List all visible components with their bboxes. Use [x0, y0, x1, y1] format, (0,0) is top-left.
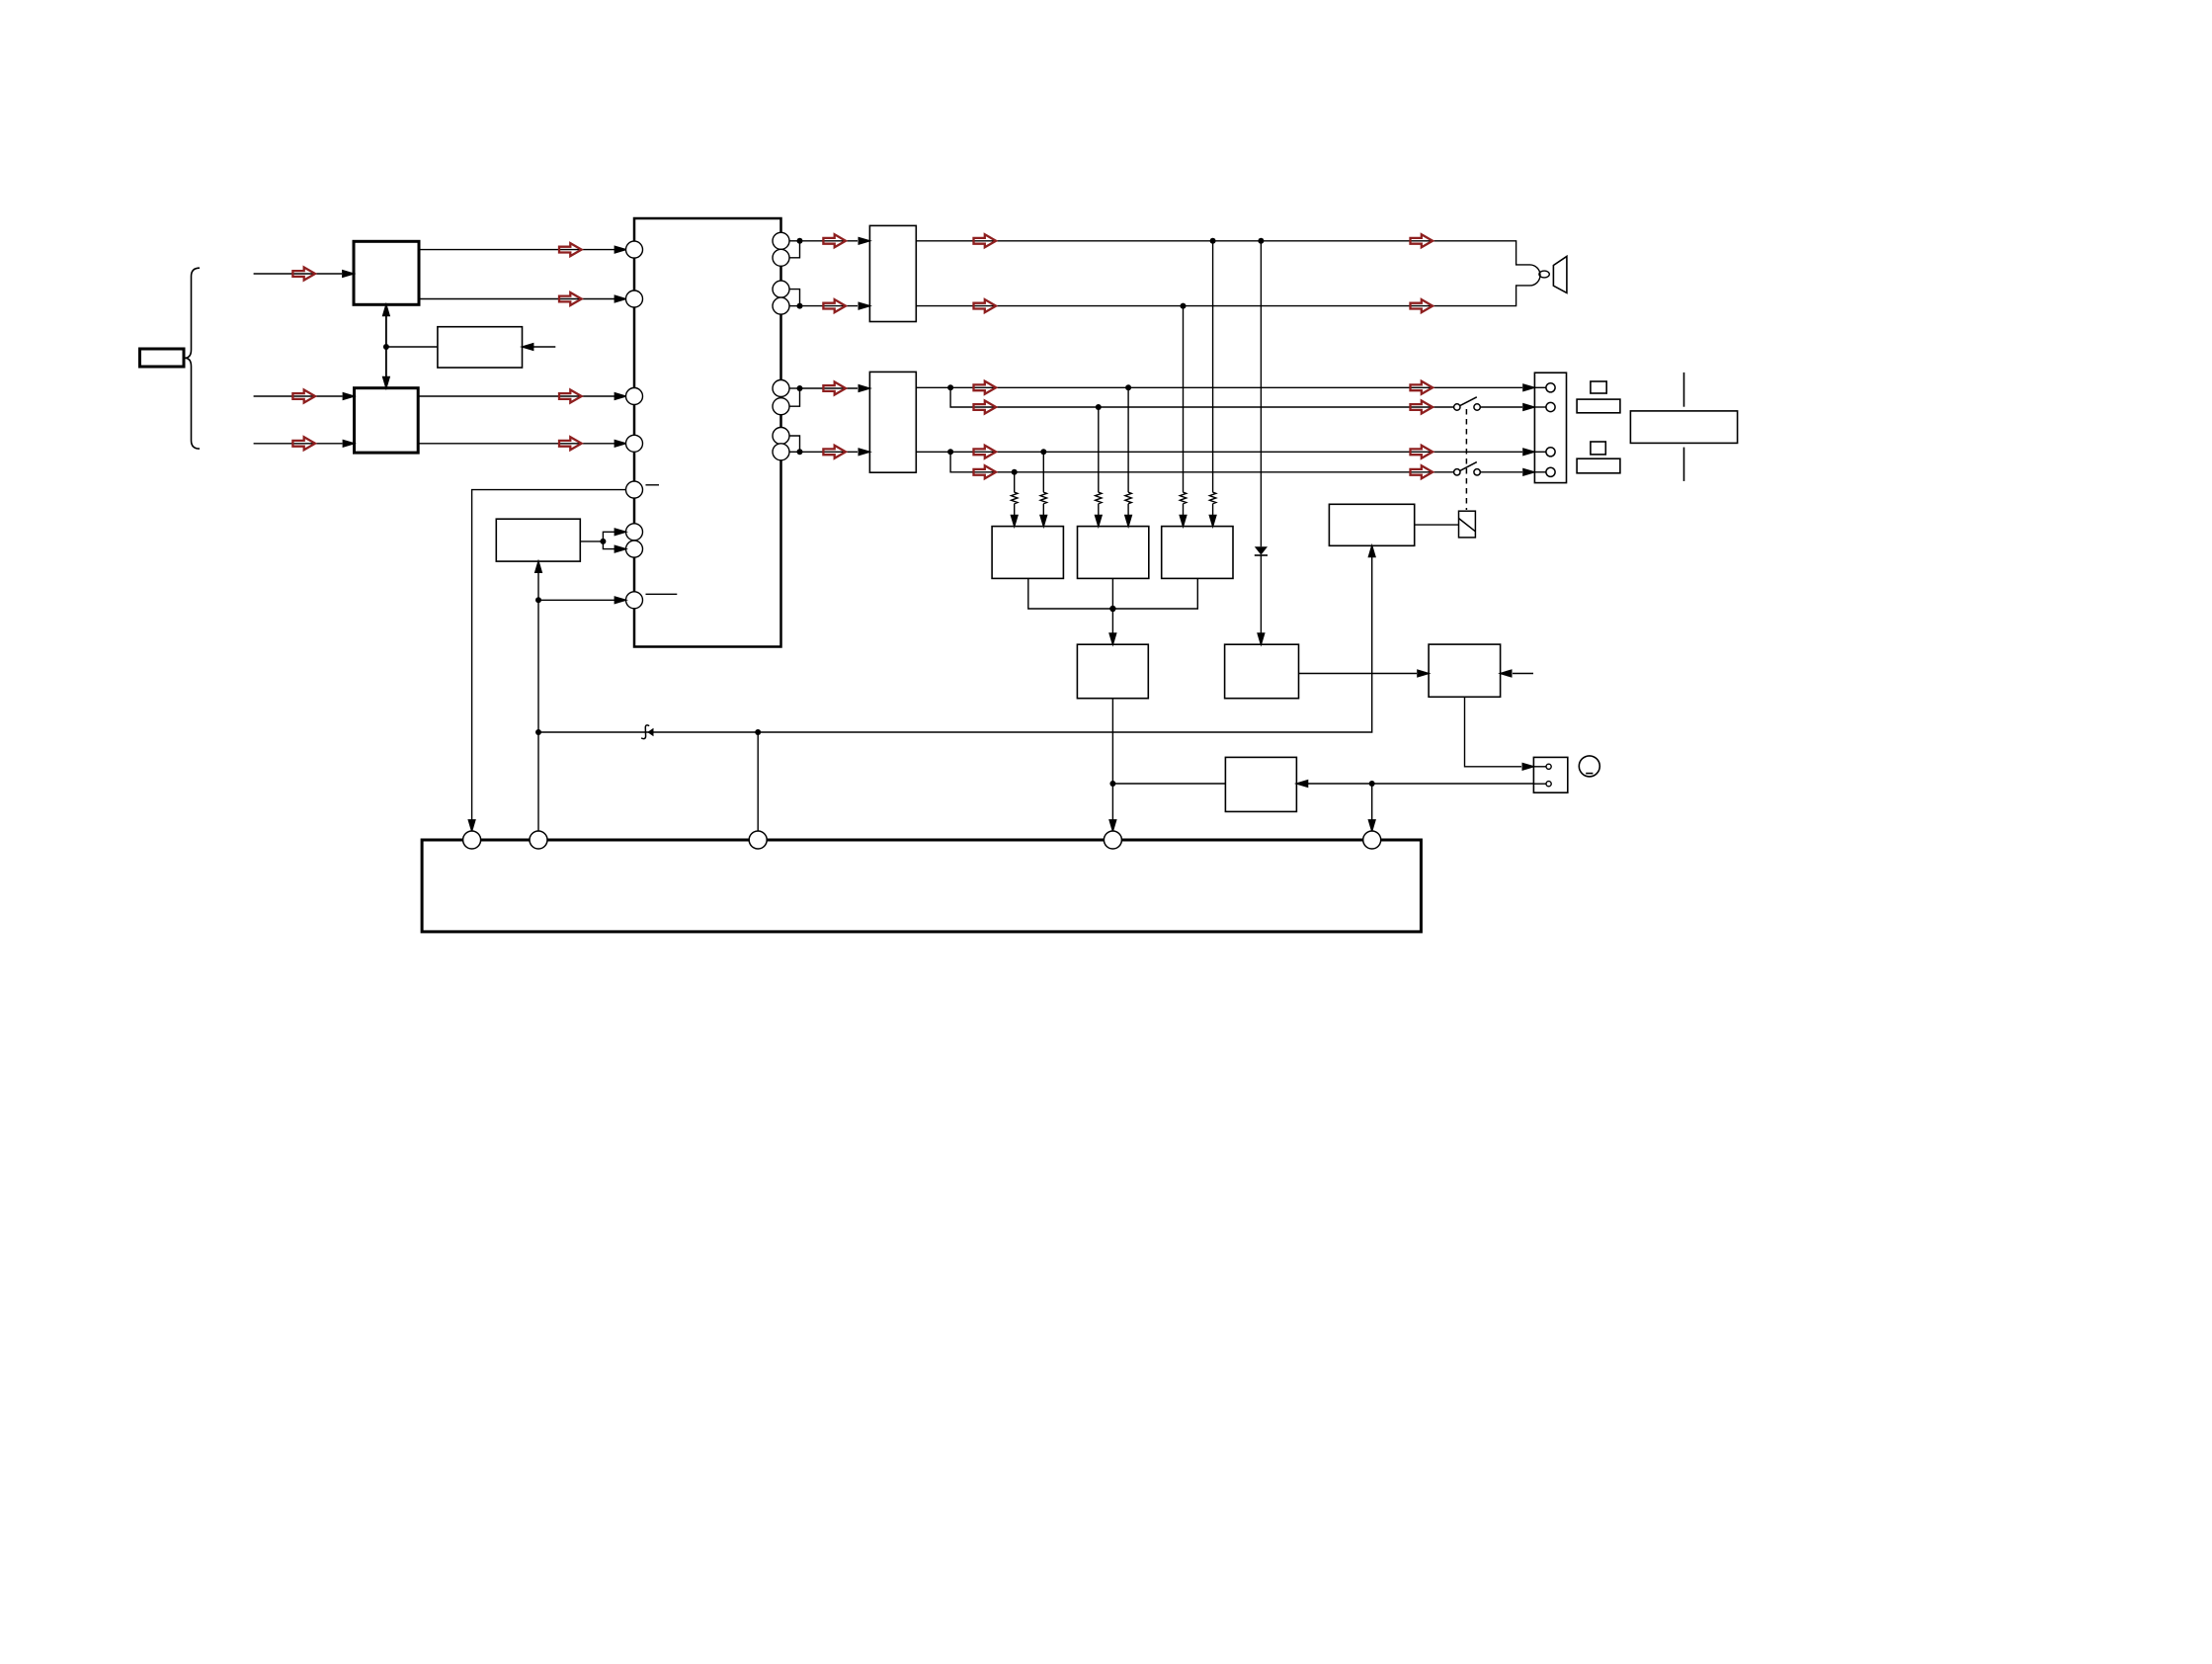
- red arrow S1 top: [559, 243, 582, 256]
- red arrow R1 a: [974, 381, 997, 394]
- switch SW1 right contact: [1474, 404, 1480, 410]
- flow arrow left on vcc run: [647, 728, 653, 737]
- CN2 pin1 lead: [1533, 766, 1546, 768]
- node mic row drop: [1369, 781, 1375, 787]
- diode D1: [1255, 546, 1268, 554]
- wire split to pin6: [603, 532, 614, 541]
- IC left pin7: [626, 541, 643, 557]
- arrowhead into box2 bottom: [859, 449, 869, 456]
- wire to box1 bottom input: [800, 305, 859, 307]
- amp block box1: [869, 225, 916, 321]
- switch SW2 right contact: [1474, 469, 1480, 475]
- wire to box1 top input: [800, 240, 859, 242]
- node R1 resistor drop: [1125, 384, 1131, 390]
- IC left pin2: [626, 291, 643, 307]
- wire S1-S2 vertical link: [385, 316, 387, 376]
- CN1 pin2 lead: [1534, 406, 1546, 408]
- wire S1 out bottom to IC pin2: [419, 298, 614, 300]
- red arrow row 309.6: [823, 299, 846, 312]
- switch SW1 lever: [1460, 397, 1477, 406]
- node diode drop: [1258, 238, 1264, 244]
- arrowhead left into M1: [523, 344, 533, 351]
- resistor col4: [1125, 492, 1131, 504]
- block boxE: [1225, 644, 1299, 699]
- connector CN1 body: [1534, 373, 1566, 482]
- arrowhead into pin6: [614, 529, 625, 536]
- wire main vcc riser: [537, 600, 539, 840]
- switch link dashed: [1465, 409, 1467, 510]
- red arrow S2 bottom: [559, 437, 582, 450]
- block boxW: [496, 519, 580, 561]
- wire box2 out row R3 to connector: [916, 451, 1522, 453]
- IC left pin3: [626, 388, 643, 405]
- red arrow S2 top: [559, 390, 582, 403]
- red arrow row 393: [823, 382, 846, 395]
- red arrow far right top: [1411, 234, 1434, 247]
- resistor col2 wire: [1042, 452, 1044, 516]
- node R3 resistor drop: [1040, 449, 1046, 455]
- wire split to pin7: [603, 541, 614, 549]
- wire branch R4: [950, 452, 1453, 472]
- arrowhead down to PSU c4: [1109, 820, 1116, 831]
- block S2: [355, 388, 419, 453]
- terminal square T1: [1591, 381, 1606, 393]
- arrowhead down into S2 top: [383, 377, 390, 388]
- red arrow R3 a: [974, 446, 997, 458]
- arrowhead into box1 top: [859, 238, 869, 245]
- arrowhead into pin7: [614, 545, 625, 552]
- arrowhead up into boxW: [535, 561, 542, 572]
- arrowhead col6 into boxC: [1209, 515, 1216, 526]
- diode D1 bar: [1255, 554, 1268, 556]
- node R1 split: [947, 384, 953, 390]
- CN1 pin1: [1546, 383, 1555, 392]
- speaker coil ellipse: [1539, 271, 1549, 278]
- wire boxW right to split: [580, 541, 603, 542]
- arrowhead up into boxG: [1368, 545, 1375, 556]
- PSU terminal c3: [749, 831, 767, 849]
- IC right pin Q6: [773, 398, 789, 415]
- wire switch SW2 to connector: [1480, 471, 1522, 473]
- PSU terminal c5: [1363, 831, 1381, 849]
- wire boxE to boxF: [1299, 673, 1418, 675]
- wire boxA merge: [1028, 578, 1113, 609]
- switch SW1 left contact: [1454, 404, 1460, 410]
- wire boxG to relay: [1415, 524, 1459, 526]
- arrowhead into mic connector: [1522, 764, 1533, 771]
- wire Q3 bracket down: [789, 290, 800, 306]
- arrowhead into S2: [343, 393, 354, 400]
- red arrow row 457.3: [823, 446, 846, 458]
- block boxH: [1225, 757, 1296, 811]
- wire to box2 top input: [800, 387, 859, 389]
- node R2 resistor drop: [1096, 404, 1102, 410]
- wire input row C: [254, 443, 343, 445]
- IC right pin Q5: [773, 380, 789, 397]
- arrowhead col2 into boxA: [1040, 515, 1047, 526]
- arrowhead left into boxH: [1296, 781, 1307, 788]
- red arrow far right bottom: [1411, 299, 1434, 312]
- amp block box2: [869, 372, 916, 472]
- block boxC: [1162, 527, 1233, 579]
- IC right pin Q8: [773, 444, 789, 460]
- flow squiggle: [641, 725, 649, 739]
- wire Q2 bracket up: [789, 241, 800, 258]
- CN1 pin4 lead: [1534, 471, 1546, 473]
- arrowhead into pin8: [614, 597, 625, 604]
- diode feed wire: [1260, 241, 1262, 633]
- IC right pin Q4: [773, 297, 789, 314]
- IC right pin Q1: [773, 232, 789, 249]
- wire Q1 to node: [789, 240, 800, 242]
- CN1 pin1 lead: [1534, 386, 1546, 388]
- switch SW2 lever: [1460, 462, 1477, 471]
- PSU terminal c1: [463, 831, 481, 849]
- arrowhead into S2 lower: [343, 441, 354, 448]
- IC right pin Q2: [773, 249, 789, 266]
- arrowhead down to PSU c1: [468, 820, 475, 831]
- node Q7Q8: [797, 449, 803, 455]
- arrowhead into connector pin3: [1523, 449, 1534, 456]
- node boxW split: [600, 539, 606, 544]
- node R4 resistor drop: [1012, 469, 1018, 475]
- terminal bar T4: [1577, 458, 1620, 473]
- CN1 pin2: [1546, 402, 1555, 411]
- switch SW2 left contact: [1454, 469, 1460, 475]
- wire box2 out row R1 to connector: [916, 386, 1522, 388]
- jack line upper: [1683, 373, 1685, 407]
- wire vcc horizontal run: [538, 557, 1372, 732]
- wire pin5 left and down to PSU: [472, 490, 626, 828]
- resistor col3: [1096, 492, 1102, 504]
- node pin8 branch: [535, 597, 541, 603]
- node merge: [1109, 606, 1115, 612]
- wire switch SW1 to connector: [1480, 406, 1522, 408]
- wire S2 out top to IC pin3: [418, 395, 614, 397]
- red arrow R1 b: [1411, 381, 1434, 394]
- node vcc junction: [535, 729, 541, 735]
- resistor col3 wire: [1098, 407, 1100, 516]
- node on link: [383, 344, 389, 350]
- red arrow R2 a: [974, 401, 997, 414]
- wire input row B: [254, 395, 343, 397]
- wire Q4 to node: [789, 305, 800, 307]
- wire boxB down: [1111, 578, 1113, 633]
- arrowhead into pin2: [614, 295, 625, 302]
- arrowhead into connector pin1: [1523, 384, 1534, 391]
- arrowhead into S1: [343, 271, 354, 278]
- block boxA: [992, 527, 1063, 579]
- wire drop to PSU c5: [1371, 784, 1373, 828]
- PSU terminal c4: [1104, 831, 1121, 849]
- terminal bar T2: [1577, 399, 1620, 413]
- arrowhead into pin4: [614, 441, 625, 448]
- arrowhead into box2 top: [859, 385, 869, 392]
- pin5 internal dash: [646, 484, 660, 486]
- arrowhead col4 into boxB: [1125, 515, 1132, 526]
- resistor col5 wire: [1183, 306, 1185, 516]
- IC right pin Q7: [773, 428, 789, 445]
- speaker cone: [1553, 256, 1567, 292]
- mic connector CN2: [1533, 757, 1567, 792]
- wire to pin8: [538, 599, 614, 601]
- relay diagonal: [1459, 519, 1476, 532]
- headphone jack bar: [1630, 411, 1737, 444]
- red arrow after box1 top: [974, 234, 997, 247]
- red arrow S1 bottom: [559, 292, 582, 305]
- wire drop to PSU c3: [757, 732, 759, 840]
- CN1 pin3 lead: [1534, 451, 1546, 453]
- speaker SP coil arc: [1530, 265, 1541, 286]
- mic electret dash: [1586, 773, 1593, 775]
- arrowhead into pin1: [614, 246, 625, 253]
- wire Q5 to node: [789, 387, 800, 389]
- block boxD: [1077, 644, 1148, 699]
- wire boxH right from mic connector: [1308, 783, 1533, 785]
- brace: [185, 268, 200, 449]
- wire boxF bottom to mic connector: [1465, 697, 1522, 767]
- pin8 internal line: [646, 593, 678, 595]
- CN2 pin2 lead: [1533, 783, 1546, 785]
- block S1: [354, 241, 419, 304]
- red arrow A: [292, 268, 315, 281]
- node r5 drop: [1181, 303, 1187, 309]
- arrowhead into boxE: [1258, 633, 1265, 644]
- arrowhead col5 into boxC: [1180, 515, 1187, 526]
- arrowhead into boxF right: [1501, 670, 1512, 677]
- wire boxD down to mic row: [1111, 699, 1113, 828]
- node Q5Q6: [797, 385, 803, 391]
- microphone MIC: [1579, 756, 1599, 777]
- CN2 pin1: [1546, 764, 1551, 769]
- block M1: [438, 327, 523, 368]
- arrowhead into connector pin4: [1523, 469, 1534, 476]
- IC left pin4: [626, 435, 643, 452]
- red arrow R3 b: [1411, 446, 1434, 458]
- arrowhead into boxF left: [1418, 670, 1429, 677]
- node Q3Q4: [797, 303, 803, 309]
- jack line lower: [1683, 448, 1685, 481]
- wire link to M1: [386, 346, 438, 348]
- resistor col1 wire: [1014, 472, 1016, 516]
- resistor col6: [1209, 492, 1215, 504]
- wire to box2 bottom input: [800, 451, 859, 453]
- input source block: [140, 349, 185, 367]
- wire input row A: [254, 273, 342, 275]
- red arrow after box1 bottom: [974, 299, 997, 312]
- wire branch R2: [950, 387, 1453, 407]
- wire boxW bottom feed: [537, 573, 539, 601]
- red arrow R2 b: [1411, 401, 1434, 414]
- node Q1Q2: [797, 238, 803, 244]
- arrowhead into box1 bottom: [859, 302, 869, 309]
- PSU terminal c2: [530, 831, 547, 849]
- wire S1 out top to IC pin1: [419, 249, 614, 251]
- resistor col2: [1040, 492, 1046, 504]
- node R3 split: [947, 449, 953, 455]
- node r6 drop: [1210, 238, 1216, 244]
- CN1 pin4: [1546, 467, 1555, 476]
- wire box1 top out to speaker: [916, 241, 1529, 265]
- wire box1 bottom out to speaker: [916, 286, 1529, 306]
- CN2 pin2: [1546, 782, 1551, 787]
- block boxF: [1429, 644, 1501, 697]
- resistor col5: [1180, 492, 1186, 504]
- block boxB: [1078, 527, 1149, 579]
- wire boxC merge: [1112, 578, 1197, 609]
- arrowhead up into S1 bottom: [383, 304, 390, 315]
- wire stub into boxF right: [1513, 673, 1533, 675]
- wire Q8 to node: [789, 451, 800, 453]
- node boxD mic junction: [1109, 781, 1115, 787]
- IC right pin Q3: [773, 281, 789, 297]
- IC left pin8: [626, 592, 643, 609]
- wire S2 out bottom to IC pin4: [418, 443, 614, 445]
- resistor col6 wire: [1212, 241, 1214, 516]
- wire mic row to boxH: [1112, 783, 1225, 785]
- IC left pin1: [626, 241, 643, 258]
- terminal square T3: [1591, 442, 1605, 455]
- red arrow R4 b: [1411, 465, 1434, 478]
- resistor col1: [1011, 492, 1017, 504]
- wire Q6 bracket up: [789, 388, 800, 406]
- CN1 pin3: [1546, 448, 1555, 457]
- IC left pin5: [626, 481, 643, 498]
- arrowhead into pin3: [614, 393, 625, 400]
- wire stub into M1 right: [533, 346, 555, 348]
- red arrow B: [292, 390, 315, 403]
- red arrow R4 a: [974, 465, 997, 478]
- block boxG: [1329, 504, 1414, 545]
- wire Q7 bracket down: [789, 436, 800, 452]
- arrowhead into boxD: [1109, 633, 1116, 644]
- arrowhead col1 into boxA: [1011, 515, 1018, 526]
- power supply block PSU: [422, 840, 1421, 932]
- arrowhead col3 into boxB: [1096, 515, 1103, 526]
- red arrow C: [292, 437, 315, 450]
- resistor col4 wire: [1127, 387, 1129, 516]
- IC U1 body: [634, 218, 781, 647]
- node vcc drop c3: [755, 729, 761, 735]
- red arrow row 243.8: [823, 234, 846, 247]
- arrowhead down to PSU c5: [1368, 820, 1375, 831]
- arrowhead into connector pin2: [1523, 404, 1534, 411]
- IC left pin6: [626, 524, 643, 541]
- relay K1: [1459, 511, 1476, 538]
